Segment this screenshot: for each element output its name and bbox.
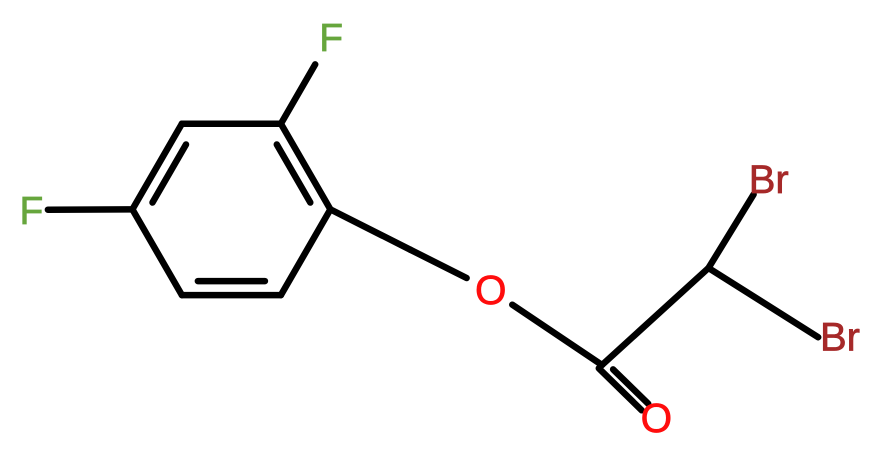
bond C2-F2 <box>281 64 315 123</box>
svg-text:Br: Br <box>820 316 860 360</box>
ring edge C5-C6 <box>182 292 281 299</box>
bond CHBr2-Br1 <box>709 194 754 268</box>
aromatic inner double-bond line C3=C4 <box>153 145 187 203</box>
bond Ccarbonyl-CHBr2 <box>602 268 709 365</box>
svg-text:Br: Br <box>749 158 789 202</box>
ring edge C4-C5 <box>132 209 182 295</box>
ring edge C2-C3 <box>182 120 281 127</box>
svg-text:O: O <box>641 395 673 441</box>
carbonyl C=O double bond line 1 <box>613 369 648 403</box>
ring edge C6-C1 <box>281 209 331 295</box>
bond O1-Ccarbonyl <box>512 305 602 365</box>
svg-text:F: F <box>319 17 343 60</box>
bond CHBr2-Br2 <box>709 268 819 337</box>
bond CH2-O1 ether <box>411 250 467 278</box>
carbonyl C=O double bond line 2 <box>599 368 642 410</box>
bond C1-CH2 (benzylic) <box>330 209 410 249</box>
ring edge C3-C4 <box>132 124 182 210</box>
aromatic inner double-bond line C1=C2 <box>277 145 311 203</box>
bond C4-F4 <box>48 206 132 213</box>
ring edge C1-C2 <box>281 124 331 210</box>
svg-text:O: O <box>475 267 507 313</box>
aromatic inner double-bond line C5=C6 <box>198 278 265 285</box>
svg-text:F: F <box>19 190 43 233</box>
